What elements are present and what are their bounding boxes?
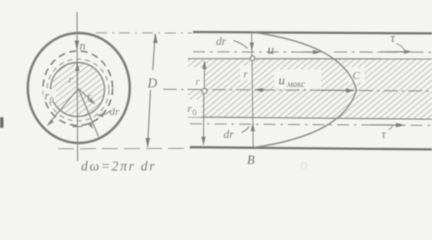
svg-text:dω=2πr dr: dω=2πr dr: [81, 159, 156, 174]
inner pipe bore dashed circle (radius r0): [43, 51, 113, 126]
svg-text:r: r: [69, 74, 74, 86]
r0 down-left arrow (center toward wall, lower-left): [49, 89, 79, 125]
svg-text:n: n: [80, 39, 86, 53]
upper dashed line right of parabola with tau arrow: [334, 51, 432, 53]
top pipe wall line: [193, 32, 432, 33]
hatch gap for label r: [186, 68, 204, 89]
outer pipe wall circle: [28, 33, 130, 143]
hatch gap for label r0: [185, 100, 202, 118]
svg-text:r: r: [196, 76, 201, 88]
hatch gap for label C: [349, 68, 365, 83]
page-edge smudge at left: [0, 117, 4, 128]
label r0: [43, 89, 56, 102]
svg-text:D: D: [147, 76, 158, 91]
bottom pipe wall line: [190, 147, 432, 149]
svg-text:r: r: [45, 91, 50, 103]
dr bottom leader: [242, 127, 250, 133]
lower dashed layer line: [190, 124, 432, 126]
u arrow solid shaft + head: [303, 51, 317, 53]
node circle on upper r-surface: [250, 56, 255, 61]
u max dimension arrows on axis: [255, 89, 264, 91]
svg-text:u: u: [268, 42, 275, 57]
svg-text:B: B: [247, 153, 255, 167]
lower-right spoke arrow to outer wall: [78, 89, 98, 137]
svg-text:0: 0: [50, 96, 54, 105]
r up arrow (center to disc top): [76, 64, 78, 89]
hatch gap for label u max: [274, 70, 321, 89]
velocity profile parabola: [252, 32, 357, 148]
hatch band bottom boundary line: [188, 117, 432, 119]
r0 dimension arrow (axis node down to wall): [203, 94, 205, 145]
svg-text:dr: dr: [224, 129, 235, 141]
dr up arrowhead on chord (bottom): [251, 123, 255, 132]
dr down arrowhead on chord (top): [250, 43, 254, 52]
svg-text:u: u: [279, 73, 286, 88]
vertical axis line through circle: [76, 12, 79, 161]
bottom extension dash line to circle: [58, 147, 192, 149]
chord line A-B at x≈252: [252, 32, 254, 147]
svg-text:D: D: [299, 161, 308, 172]
ring dashed circle (radius r+dr): [47, 59, 109, 121]
svg-text:0: 0: [193, 108, 197, 117]
upper dashed layer line (radius r, with u arrow): [193, 51, 318, 53]
lower tau arrow: [370, 124, 400, 126]
top extension dash line to circle: [96, 32, 192, 34]
hatched disc (fluid cylinder radius r): [51, 63, 105, 117]
svg-text:dr: dr: [110, 106, 121, 118]
tau bottom leader: [389, 126, 393, 130]
svg-text:r: r: [87, 91, 92, 103]
n arrowhead (pointing down to bore circle): [75, 41, 80, 51]
tick where axis crosses bore circle bottom: [73, 126, 83, 128]
r down-right arrow (center to disc edge): [78, 89, 94, 104]
hatch gap for chord r label: [240, 66, 252, 81]
D dimension line: [153, 34, 156, 70]
r dimension arrow (axis node up to r-surface): [203, 62, 205, 88]
svg-text:τ: τ: [391, 31, 396, 45]
svg-text:τ: τ: [382, 127, 387, 141]
hatch band top boundary line: [188, 58, 432, 60]
axis dash-dot line: [163, 89, 432, 91]
svg-text:C: C: [353, 70, 361, 82]
tau top leader: [397, 44, 405, 51]
hatch band between r-surfaces: [188, 59, 432, 119]
svg-text:макс: макс: [286, 79, 305, 89]
node circle on axis: [202, 88, 207, 93]
svg-text:dr: dr: [216, 36, 227, 48]
dr top leader: [234, 41, 248, 49]
